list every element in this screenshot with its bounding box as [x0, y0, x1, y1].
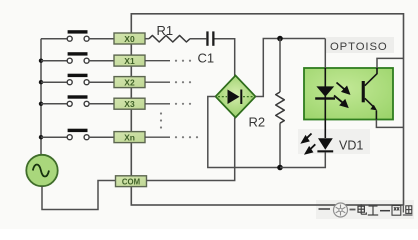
wire switch S3 to terminal X3 — [89, 103, 114, 105]
svg-text:X1: X1 — [124, 56, 135, 66]
capacitor C1 — [206, 31, 214, 45]
wire switch S0 to terminal X0 — [89, 38, 114, 40]
continuation dots X3 row — [175, 103, 191, 105]
wire node B to VD1 cathode lead — [280, 152, 325, 167]
continuation dots X1 row — [175, 60, 191, 62]
wire terminal X0 to resistor R1 — [145, 38, 149, 40]
resistor R2 — [276, 92, 285, 123]
svg-text:C1: C1 — [198, 51, 215, 66]
resistor R1 — [149, 35, 190, 42]
svg-text:X3: X3 — [124, 99, 135, 109]
wire bus to switch Sn — [41, 136, 67, 138]
node B junction — [277, 165, 283, 171]
svg-text:COM: COM — [122, 177, 140, 186]
watermark dash left — [319, 208, 331, 210]
wire terminal Xn stub — [145, 136, 170, 138]
terminal X0 — [114, 33, 145, 44]
node A junction — [277, 36, 283, 42]
watermark logo — [334, 203, 348, 217]
terminal Xn — [114, 132, 145, 143]
vertical ellipsis between X3 and Xn — [160, 112, 162, 128]
LED VD1 lead from optocoupler — [324, 120, 326, 139]
watermark glyph tong — [403, 206, 413, 215]
wire phototransistor collector output — [377, 58, 403, 68]
watermark glyph dian — [358, 204, 366, 214]
VD1 emission arrows — [302, 134, 315, 154]
faint watermark band bottom right — [316, 200, 414, 219]
watermark glyph yi — [380, 210, 390, 212]
watermark glyph gong — [368, 206, 378, 215]
dashed line through bridge — [218, 96, 227, 98]
AC source G1 — [26, 155, 57, 186]
switch S0 — [67, 30, 89, 41]
wire R1 to capacitor C1 — [190, 38, 206, 40]
optocoupler LED lead — [324, 68, 326, 120]
wire AC source to COM terminal — [42, 181, 116, 210]
wire phototransistor emitter output — [376, 120, 403, 128]
terminal COM — [116, 176, 147, 187]
wire terminal X3 stub — [145, 103, 170, 105]
LED VD1 — [317, 138, 333, 152]
node: bus junction Xn — [39, 135, 43, 139]
optocoupler light arrows — [334, 83, 349, 107]
wire bus to switch S3 — [41, 103, 67, 105]
node: bus junction X2 — [39, 80, 43, 84]
svg-text:X0: X0 — [124, 34, 135, 44]
wire node A into optocoupler LED anode — [324, 39, 326, 69]
switch S2 — [67, 74, 89, 85]
svg-text:R2: R2 — [249, 115, 266, 130]
wire bridge right vertex up to node A and to optocoupler — [256, 39, 326, 97]
optocoupler LED — [315, 86, 335, 99]
node: bus junction X3 — [39, 102, 43, 106]
svg-text:R1: R1 — [157, 23, 174, 38]
wire COM terminal to bridge bottom vertex — [147, 118, 235, 181]
wire switch Sn to terminal Xn — [89, 136, 114, 138]
diode inside bridge — [228, 90, 240, 105]
svg-text:Xn: Xn — [124, 132, 135, 142]
faint watermark band behind OPTOISO label — [326, 37, 394, 53]
wire R2 bottom to node B — [279, 123, 281, 167]
svg-text:X2: X2 — [124, 77, 135, 87]
wire C1 to bridge top vertex — [215, 39, 235, 76]
faint watermark band behind VD1 label — [298, 129, 370, 154]
wire terminal X2 stub — [145, 81, 170, 83]
left AC bus wire — [40, 39, 42, 155]
continuation dots X2 row — [175, 81, 191, 83]
svg-text:VD1: VD1 — [339, 139, 363, 153]
switch S3 — [67, 95, 89, 106]
wire node A down to resistor R2 — [279, 39, 281, 93]
wire bus to switch S1 — [41, 60, 67, 62]
optocoupler phototransistor Q1 — [362, 68, 377, 120]
terminal X2 — [114, 77, 145, 88]
wire bridge left vertex down and along bottom to node B — [208, 97, 280, 168]
wire bus to switch S0 — [41, 38, 67, 40]
optocoupler U1 box — [304, 68, 393, 120]
switch Sn — [67, 129, 89, 140]
terminal X1 — [114, 55, 145, 66]
node: bus junction X1 — [39, 59, 43, 63]
svg-text:OPTOISO: OPTOISO — [330, 41, 388, 53]
wire switch S2 to terminal X2 — [89, 81, 114, 83]
watermark dash middle — [350, 209, 356, 211]
bridge rectifier diamond — [216, 76, 256, 118]
wire terminal X1 stub — [145, 60, 170, 62]
switch S1 — [67, 52, 89, 63]
continuation dots Xn row — [175, 136, 198, 138]
terminal X3 — [114, 98, 145, 109]
wire switch S1 to terminal X1 — [89, 60, 114, 62]
watermark glyph wang — [392, 206, 401, 216]
PLC module boundary rectangle — [131, 14, 403, 205]
wire bus to switch S2 — [41, 81, 67, 83]
